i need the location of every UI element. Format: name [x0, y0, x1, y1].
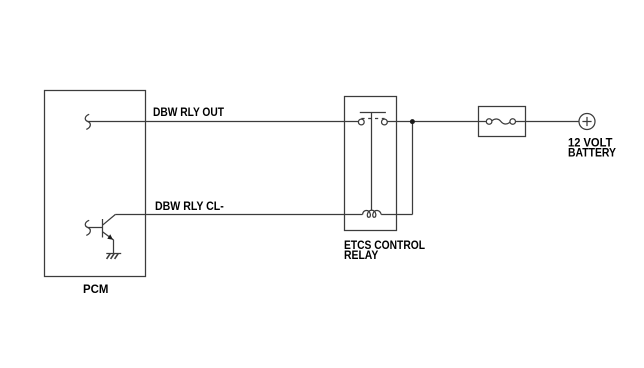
svg-text:BATTERY: BATTERY: [568, 146, 616, 160]
svg-text:RELAY: RELAY: [344, 248, 378, 262]
svg-text:DBW RLY OUT: DBW RLY OUT: [153, 105, 225, 119]
svg-text:DBW RLY CL-: DBW RLY CL-: [155, 199, 224, 213]
svg-text:PCM: PCM: [83, 282, 108, 296]
